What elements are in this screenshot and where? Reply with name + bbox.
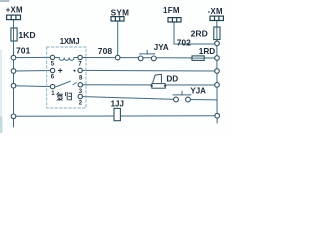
polarity dot mark bbox=[74, 70, 76, 72]
wire: bottom wire (left node through 1JJ to right node) bbox=[14, 115, 218, 118]
svg-text:1JJ: 1JJ bbox=[111, 100, 124, 109]
node row2 left bbox=[11, 69, 16, 74]
node 1RD junction bbox=[215, 56, 220, 61]
terminal 2 bbox=[78, 94, 82, 98]
wire: row3 right (terminal 3 through DD to right bus) bbox=[80, 84, 217, 86]
node row2 right bbox=[215, 69, 220, 74]
terminal 5 bbox=[50, 55, 54, 59]
wire: 1FM drop and 702 run bbox=[174, 22, 217, 44]
node 702 junction bbox=[215, 41, 220, 46]
node bottom-right bbox=[215, 113, 220, 118]
terminal 1 bbox=[50, 84, 54, 88]
terminal -XM bbox=[210, 16, 223, 20]
reset contact blade from 1 bbox=[55, 81, 70, 87]
photocopy smudge bottom-left corner bbox=[0, 118, 3, 133]
photocopy smudge left edge bbox=[0, 50, 2, 133]
terminal 8 bbox=[78, 68, 82, 72]
node bottom-left bbox=[11, 114, 16, 119]
wire: right bus vertical bbox=[216, 21, 218, 124]
svg-text:YJA: YJA bbox=[190, 86, 206, 95]
svg-text:1FM: 1FM bbox=[163, 6, 180, 15]
node 701 bbox=[11, 55, 16, 60]
svg-text:JYA: JYA bbox=[154, 43, 169, 52]
node row3 left bbox=[11, 83, 16, 88]
link DD bbox=[150, 74, 166, 88]
svg-text:DD: DD bbox=[166, 75, 178, 84]
wire: row3 left (bus to terminal 1) bbox=[14, 85, 53, 88]
svg-text:702: 702 bbox=[177, 37, 191, 47]
contact YJA bbox=[173, 91, 191, 102]
fuse 2RD bbox=[214, 27, 220, 40]
fuse 1KD bbox=[11, 28, 17, 41]
svg-text:+XM: +XM bbox=[6, 6, 23, 15]
svg-text:SYM: SYM bbox=[111, 8, 130, 17]
relay 1JJ bbox=[114, 108, 120, 120]
polarity plus mark bbox=[58, 69, 62, 73]
terminal 7 bbox=[78, 55, 82, 59]
svg-text:708: 708 bbox=[98, 46, 113, 56]
terminal +XM bbox=[7, 15, 21, 20]
svg-text:2RD: 2RD bbox=[191, 28, 208, 38]
terminal 1FM bbox=[168, 18, 181, 22]
svg-text:701: 701 bbox=[16, 46, 31, 56]
fixed contact tick above 3 bbox=[73, 83, 76, 85]
terminal SYM bbox=[111, 17, 124, 21]
terminal 3 bbox=[78, 83, 82, 87]
svg-text:1RD: 1RD bbox=[199, 47, 215, 56]
node SYM junction bbox=[115, 55, 120, 60]
wire: row1 left (701 node to terminal 5) bbox=[14, 56, 53, 58]
svg-text:-XM: -XM bbox=[208, 7, 223, 16]
relay box 1XMJ dashed outline bbox=[47, 47, 86, 108]
photocopy smudge top-left bbox=[0, 0, 9, 2]
svg-text:1KD: 1KD bbox=[18, 30, 35, 40]
fuse 1RD bbox=[192, 56, 204, 61]
terminal 6 bbox=[50, 68, 54, 72]
wire: row2 right (terminal 8 to right bus) bbox=[80, 69, 217, 72]
wire: SYM drop bbox=[117, 21, 119, 58]
wire: left bus vertical bbox=[13, 20, 15, 128]
coil between 5 and 7 bbox=[55, 58, 78, 61]
label 复归 (reset) drawn strokes bbox=[57, 92, 72, 100]
wire: row2 left (bus to terminal 6) bbox=[14, 70, 53, 73]
wire: terminal 2 to YJA to right bus bbox=[80, 97, 176, 100]
svg-text:1XMJ: 1XMJ bbox=[60, 37, 80, 46]
contact JYA bbox=[138, 50, 156, 61]
wire: row1 right (terminal 7 to 1RD to right bus) bbox=[80, 57, 217, 60]
node row3 right bbox=[215, 83, 220, 88]
